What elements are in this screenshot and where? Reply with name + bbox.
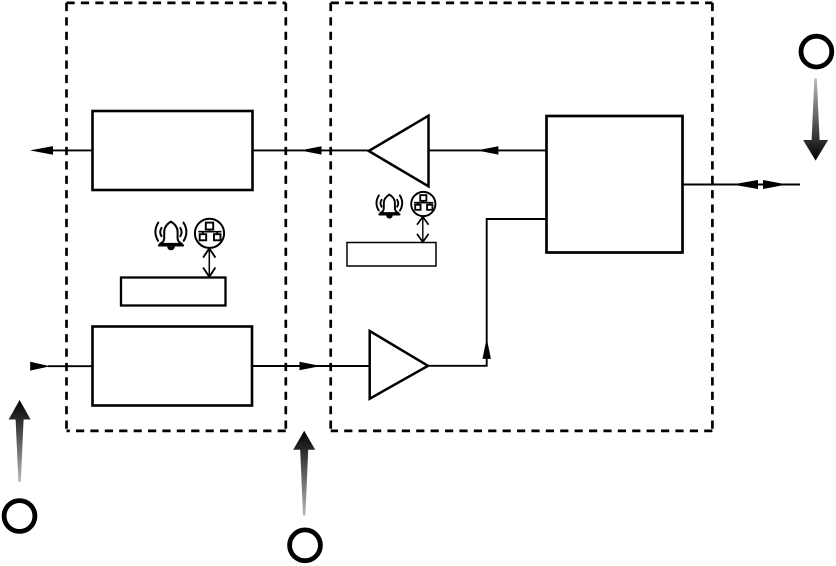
small rectangle below right icon pair [347, 243, 436, 267]
arrowhead: bidirectional pointing left [732, 180, 758, 189]
wire: right triangle apex to big square (right then up then right) [428, 219, 547, 366]
wire: big square to left triangle [429, 149, 547, 151]
icon: alarm bell (left pair) [155, 222, 186, 250]
block: large right square [547, 116, 683, 253]
block: bottom-left rectangle [93, 327, 253, 406]
callout circle: bottom middle [290, 530, 321, 561]
wire: left triangle apex to top-left rect [253, 149, 369, 151]
icon: network circle (right pair, smaller) [411, 192, 435, 216]
arrowhead: output pointing left [30, 146, 53, 155]
callout pointer arrow: top right pointing down [803, 78, 828, 160]
small rectangle below left icon pair [121, 278, 226, 306]
callout circle: top right [801, 36, 832, 67]
wire: top-left rect to left edge output [50, 149, 93, 151]
callout circle: bottom left [4, 501, 35, 532]
double arrow: left network circle to small rectangle [203, 248, 215, 276]
arrowhead: bidirectional pointing right [763, 180, 787, 189]
amplifier triangle (points left, top path) [369, 116, 429, 187]
icon: alarm bell (right pair, smaller) [376, 195, 402, 218]
amplifier triangle (points right, bottom path) [370, 331, 428, 399]
icon: network circle (left pair) [195, 219, 224, 248]
callout pointer arrow: bottom left pointing up [9, 400, 31, 482]
double arrow: right network circle to small rectangle [417, 217, 429, 242]
arrowhead: mid-line pointing right [300, 362, 321, 370]
wire: bottom-left rect to right triangle [252, 365, 370, 367]
arrowhead: input pointing right [30, 362, 50, 371]
callout pointer arrow: bottom middle pointing up [293, 431, 315, 516]
arrowhead: mid-line pointing left [477, 146, 499, 154]
dashed enclosure: right unit [331, 3, 713, 431]
wire: big square right bidirectional port [683, 184, 801, 186]
wire: left edge input into bottom-left rect [48, 365, 93, 367]
block: top-left rectangle [93, 111, 253, 190]
arrowhead: mid-line pointing left [300, 146, 322, 154]
arrowhead: mid-line pointing up [483, 338, 491, 359]
dashed enclosure: left unit [67, 3, 286, 431]
